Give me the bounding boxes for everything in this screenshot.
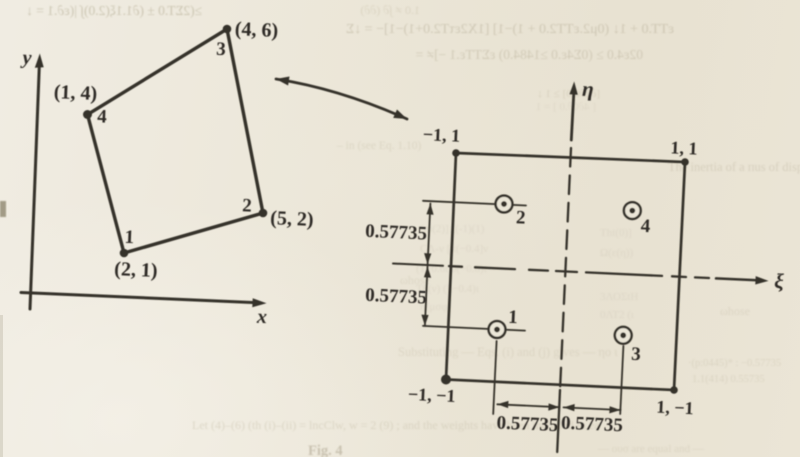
svg-text:≥(2ΣT.0 ± (∂1.1ξ(2.0)∫ |(ε∂.1: ≥(2ΣT.0 ± (∂1.1ξ(2.0)∫ |(ε∂.1 = ↓	[26, 3, 202, 19]
eta axis solid below square	[557, 390, 560, 452]
svg-text:3: 3	[216, 39, 226, 60]
gauss point 3 dot	[620, 332, 626, 338]
xi axis dash f edge cross	[672, 275, 686, 278]
svg-text:4: 4	[640, 216, 651, 237]
svg-text:ξ: ξ	[774, 269, 785, 293]
svg-text:1.1(414) 0.55735: 1.1(414) 0.55735	[692, 374, 765, 385]
quadrilateral element edges 1-2-3-4	[88, 29, 264, 253]
square corner dot 1,-1	[670, 386, 678, 394]
svg-text:1, −1: 1, −1	[656, 397, 694, 419]
svg-text:εTT.0 + 1↓ (0μ2.εTT2.0 + 1)−1]: εTT.0 + 1↓ (0μ2.εTT2.0 + 1)−1] [1Χ2ετT2.…	[346, 22, 674, 37]
square corner dot 1,1	[681, 158, 689, 166]
svg-text:02ε4.0 ≥ (0Σ4ε.0 ≥1484.0) εΣ: 02ε4.0 ≥ (0Σ4ε.0 ≥1484.0) εΣTTε.1 −]≠ =	[416, 47, 643, 62]
gauss point 2 circle	[496, 196, 513, 213]
svg-text:3: 3	[631, 344, 641, 365]
svg-text:(2, 1): (2, 1)	[114, 258, 158, 282]
extension line below gauss point 1	[493, 341, 496, 414]
svg-text:−1, 1: −1, 1	[422, 124, 460, 146]
right segment left arrow	[564, 404, 575, 411]
xi axis dash c	[529, 269, 548, 272]
extension line below gauss point 3	[620, 346, 623, 414]
xi axis arrowhead	[755, 276, 768, 284]
node 1 dot	[120, 249, 129, 258]
gauss point 4 dot	[629, 208, 635, 214]
xi axis dash a	[449, 265, 462, 268]
svg-text:(5, 2): (5, 2)	[270, 207, 314, 231]
bottom dimension line right segment	[564, 407, 621, 410]
svg-text:0.57735: 0.57735	[365, 221, 428, 245]
left segment right arrow	[548, 403, 559, 410]
gauss point 3 circle	[615, 327, 632, 344]
xi axis dash g	[695, 276, 709, 279]
svg-text:2: 2	[516, 207, 526, 228]
y-axis	[30, 66, 39, 309]
curved arrow left head	[276, 77, 290, 86]
svg-text:Substituting — Εqs. (i) and (j: Substituting — Εqs. (i) and (j) gives — …	[398, 345, 618, 359]
eta axis solid shaft	[571, 93, 574, 140]
svg-text:2: 2	[242, 195, 252, 216]
right segment right arrow	[609, 406, 620, 413]
xi axis dash d centre cross	[556, 271, 577, 272]
upper segment top arrow	[426, 204, 433, 215]
square corner dot -1,-1	[441, 375, 451, 385]
lower segment bottom arrow	[421, 315, 428, 326]
gauss point 1 circle	[489, 321, 506, 338]
svg-text:0.57735: 0.57735	[365, 285, 428, 309]
svg-text:[ 4∂0∂.0 ] = 1: [ 4∂0∂.0 ] = 1	[536, 101, 596, 113]
eta axis arrowhead	[569, 82, 577, 95]
x-axis arrowhead	[252, 298, 266, 307]
gauss point 4 circle	[624, 202, 641, 219]
svg-text:3ΛΟΣtΗ: 3ΛΟΣtΗ	[600, 291, 638, 303]
svg-text:ωhose: ωhose	[720, 304, 750, 318]
svg-text:Ω(ε(η)): Ω(ε(η))	[600, 247, 634, 259]
svg-text:x: x	[256, 306, 268, 328]
svg-text:1.0 ≠ ∫∂ (∂∂): 1.0 ≠ ∫∂ (∂∂)	[360, 3, 420, 17]
svg-text:– in (see Eq. 1.10): – in (see Eq. 1.10)	[336, 140, 421, 152]
square corner dot -1,1	[452, 149, 460, 157]
xi axis dash b	[475, 267, 515, 269]
lower segment top arrow	[424, 267, 431, 278]
curved arrow right head	[393, 110, 407, 120]
svg-text:−1, −1: −1, −1	[408, 384, 456, 406]
node 4 dot	[83, 110, 92, 119]
x-axis	[21, 293, 255, 303]
bottom dimension line left segment	[497, 404, 559, 407]
extension line through gauss point 2	[423, 201, 526, 206]
left edge smudge dark	[0, 201, 6, 217]
left edge band	[0, 315, 3, 457]
curved mapping arrow	[276, 79, 407, 119]
svg-text:1, 1: 1, 1	[670, 137, 698, 158]
xi axis solid shaft	[716, 278, 757, 280]
y-axis arrowhead	[35, 54, 44, 68]
svg-text:0.57735: 0.57735	[496, 412, 559, 436]
svg-text:η: η	[582, 77, 595, 101]
svg-text:y: y	[20, 47, 32, 69]
svg-text:0ΛΤ2 (ι: 0ΛΤ2 (ι	[600, 309, 634, 321]
eta axis dashed centreline	[560, 148, 571, 390]
svg-text:(1, 4): (1, 4)	[53, 81, 97, 105]
vertical dimension line lower segment	[425, 267, 428, 326]
node 3 dot	[223, 25, 232, 34]
gauss point 2 dot	[501, 201, 507, 207]
svg-text:Fig. 4: Fig. 4	[308, 443, 343, 457]
svg-text:(4, 6): (4, 6)	[234, 18, 278, 42]
svg-text:— ουσ are equal and —: — ουσ are equal and —	[597, 443, 705, 455]
upper segment bottom arrow	[424, 253, 431, 264]
left segment left arrow	[497, 401, 508, 408]
xi axis dash e long	[586, 272, 662, 276]
node 2 dot	[259, 209, 268, 218]
extension line through gauss point 1	[423, 326, 525, 331]
xi axis left extension	[393, 264, 443, 266]
gauss point 1 dot	[494, 327, 500, 333]
svg-text:CΛ-ν [κ(−0.4]ν: CΛ-ν [κ(−0.4]ν	[420, 243, 488, 255]
vertical dimension line upper segment	[428, 204, 431, 265]
svg-text:1: 1	[124, 227, 134, 248]
svg-text:·(p:0445)* : −0.57735: ·(p:0445)* : −0.57735	[688, 358, 781, 369]
svg-text:Tht(0)]: Tht(0)]	[600, 227, 632, 239]
svg-text:0.57735: 0.57735	[561, 413, 624, 437]
svg-text:1: 1	[508, 307, 518, 328]
parent square element	[446, 153, 685, 390]
svg-text:4: 4	[97, 106, 108, 127]
